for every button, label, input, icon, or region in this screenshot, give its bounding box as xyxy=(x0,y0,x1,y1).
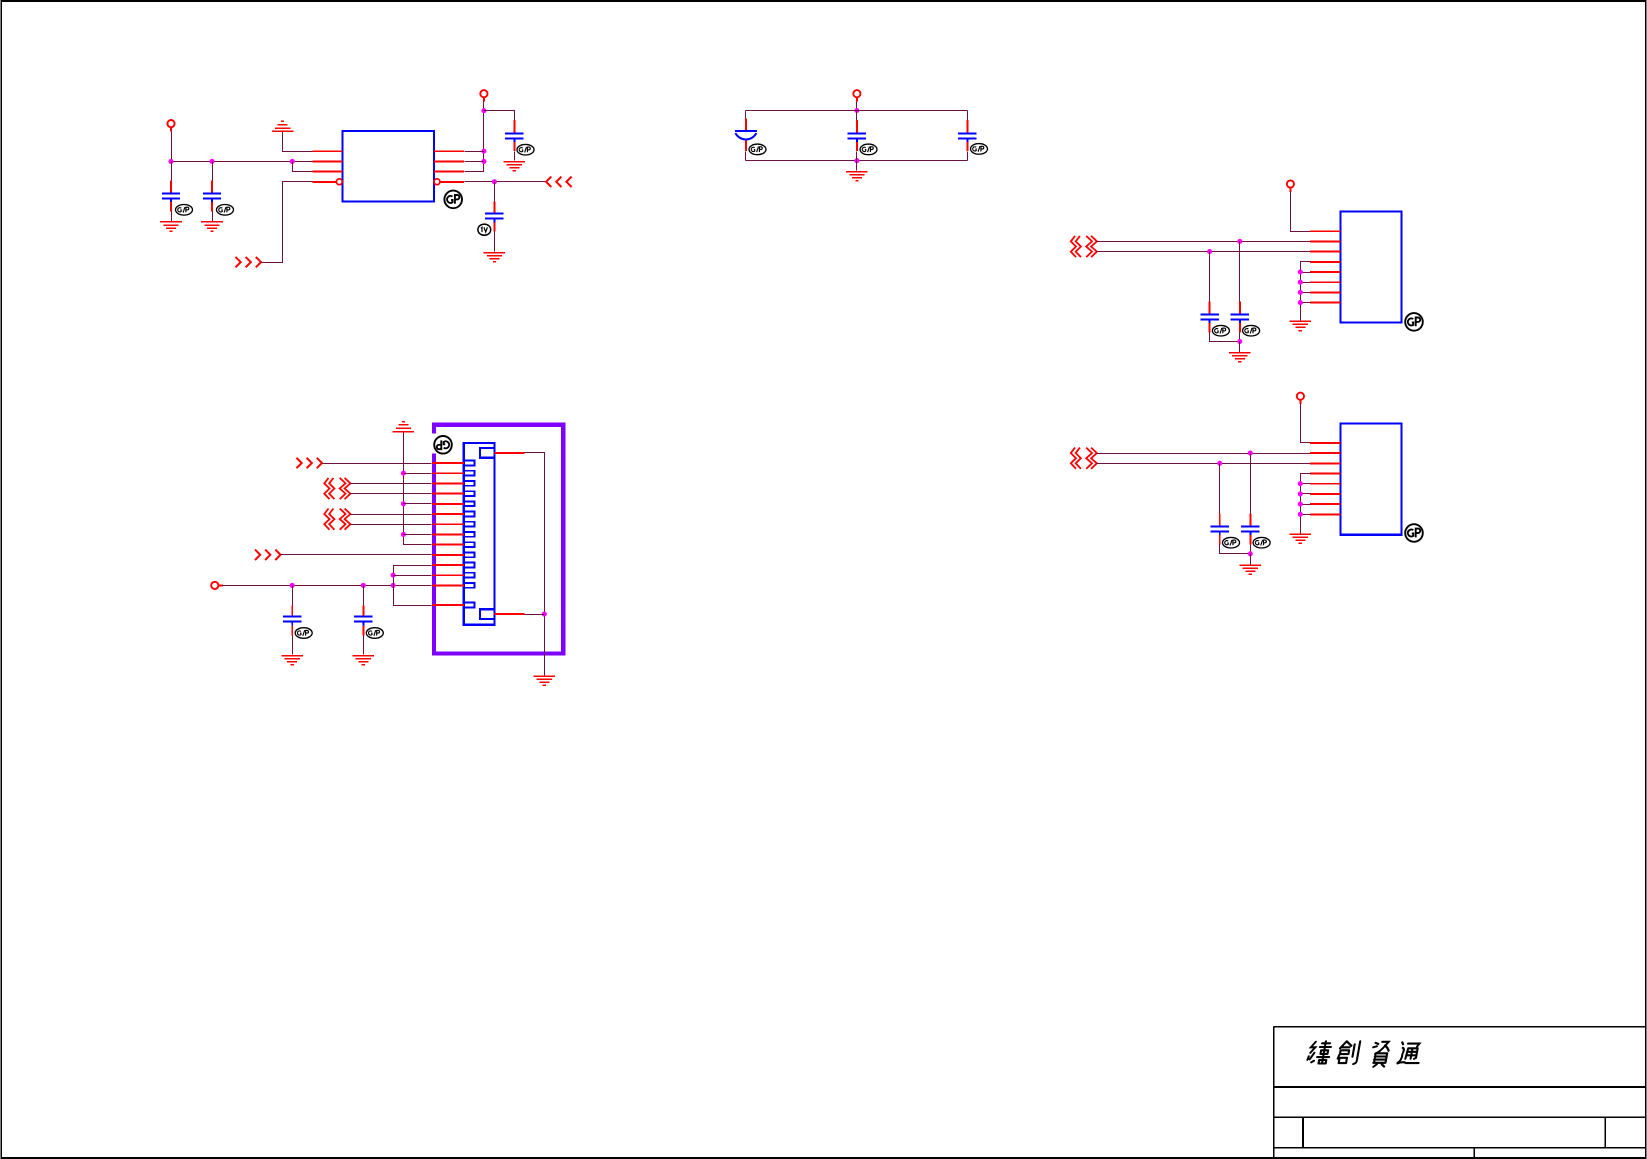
connector J1 body xyxy=(464,443,495,625)
wire cap-right bottom U2 xyxy=(1239,333,1241,342)
wire stub row6 U2 xyxy=(1301,282,1311,284)
capacitor C1 xyxy=(162,193,180,202)
GP stamp J1 xyxy=(434,436,452,454)
junction GE row2 xyxy=(401,471,406,476)
wire C7 bottom xyxy=(967,152,969,161)
wire V2 row12 xyxy=(394,575,432,577)
pin C10 bottom xyxy=(291,626,293,636)
wire C1 top xyxy=(171,162,173,181)
junction stub row6 U3 xyxy=(1298,491,1303,496)
wire ground vertical GE xyxy=(404,433,432,545)
off-page connector IN2 xyxy=(255,550,281,560)
connector shield box (purple) xyxy=(434,425,563,654)
pin U1.6 xyxy=(434,171,464,173)
pin U2.3 xyxy=(1310,251,1340,253)
connector J1 pin box 7 xyxy=(464,522,475,527)
connector J1 top tab xyxy=(480,448,495,458)
pin J1.1 xyxy=(432,462,464,464)
pin U3.8 xyxy=(1310,513,1340,515)
capacitor C3 xyxy=(505,133,523,142)
pin J1.14 xyxy=(432,604,464,606)
connector J1 pin box 12 xyxy=(464,573,475,578)
pin cap-right top U3 xyxy=(1249,513,1251,525)
IC U1 xyxy=(343,131,435,202)
G/P stamp U2-right xyxy=(1243,325,1260,336)
connector J1 pin box 9 xyxy=(464,542,475,547)
wire node A rail xyxy=(172,161,313,163)
ground GE inverted xyxy=(393,422,415,432)
junction U3 row3 xyxy=(1217,461,1222,466)
pin cap-left bottom U3 xyxy=(1219,535,1221,544)
pin U2.1 xyxy=(1310,230,1340,232)
wire GE row2 xyxy=(404,473,432,475)
junction stub row7 U3 xyxy=(1298,502,1303,507)
pin cap-left bottom U2 xyxy=(1209,323,1211,332)
G/P stamp C2 xyxy=(217,205,234,216)
connector J1 pin box 11 xyxy=(464,563,475,568)
capacitor C5 polarized xyxy=(735,131,757,140)
ground C4 xyxy=(484,253,506,262)
connector J1 pin box 2 xyxy=(464,471,475,476)
wire CH1 row4 xyxy=(351,493,432,495)
wire stub row7 U2 xyxy=(1301,292,1311,294)
company name text (Wistron) xyxy=(1306,1041,1422,1067)
pin C1 top xyxy=(170,181,172,193)
G/P stamp U3-left xyxy=(1223,537,1240,548)
junction P6-C10 xyxy=(290,583,295,588)
wire C4 top xyxy=(494,182,496,202)
wire node A3 to U1 pin 3 xyxy=(293,162,313,172)
power terminal P1 xyxy=(167,120,174,132)
wire C2 to ground xyxy=(212,212,214,222)
wire U2 row3 xyxy=(1097,251,1311,253)
pin C11 bottom xyxy=(362,626,364,636)
capacitor U2-left xyxy=(1200,314,1218,323)
off-page bus connector CH2 xyxy=(324,509,350,530)
pin J1 bottom tab xyxy=(494,613,524,615)
pin U1.4 xyxy=(313,181,337,183)
pin U3.7 xyxy=(1310,503,1340,505)
pin U2.5 xyxy=(1310,271,1340,273)
wire ground stem U2 xyxy=(1239,342,1241,353)
junction V2 row12 xyxy=(391,573,396,578)
off-page bus connector U2 xyxy=(1071,236,1097,257)
pin C4 top xyxy=(493,202,495,213)
GP stamp U2 xyxy=(1405,313,1423,331)
wire CH2 row7 xyxy=(351,524,432,526)
bubble U1.5 xyxy=(434,179,440,185)
G/P stamp C3 xyxy=(517,144,534,155)
wire C2 top xyxy=(212,162,214,181)
wire pin8 to vertical xyxy=(465,151,484,153)
wire stub vertical U2 xyxy=(1301,262,1311,321)
pin U2.7 xyxy=(1310,291,1340,293)
connector J1 pin box 14 xyxy=(464,603,475,608)
junction stub row8 U2 xyxy=(1298,300,1303,305)
wire U3 row2 xyxy=(1097,453,1311,455)
wire CH2 row6 xyxy=(351,514,432,516)
capacitor C11 xyxy=(354,617,372,626)
off-page bus connector CH1 xyxy=(324,478,350,499)
pin J1.10 xyxy=(432,554,464,556)
ground stub U3 xyxy=(1290,534,1312,543)
junction stub row5 U3 xyxy=(1298,481,1303,486)
junction P2-pin7 xyxy=(481,159,486,164)
junction B bottom xyxy=(854,158,859,163)
ground C1 xyxy=(160,222,182,231)
wire B bottom rail xyxy=(746,160,968,162)
wire C6 top xyxy=(856,111,858,121)
pin U1.3 xyxy=(313,171,343,173)
ground GA inverted xyxy=(272,121,294,131)
wire GA to U1 pin 1 xyxy=(283,132,313,152)
ground caps U2 xyxy=(1229,353,1251,362)
junction B top xyxy=(854,108,859,113)
power terminal P5 xyxy=(1297,393,1304,405)
wire top tab to ground xyxy=(525,453,545,676)
1V stamp C4 xyxy=(478,224,491,235)
junction GE row8 xyxy=(401,532,406,537)
pin cap-left top U2 xyxy=(1209,301,1211,313)
ground C11 xyxy=(353,656,375,665)
junction stub row8 U3 xyxy=(1298,512,1303,517)
junction stub row7 U2 xyxy=(1298,290,1303,295)
pin C7 bottom xyxy=(966,142,968,151)
pin U3.4 xyxy=(1310,473,1340,475)
G/P stamp U2-left xyxy=(1212,325,1229,336)
pin J1.6 xyxy=(432,513,464,515)
wire cap-left top U2 xyxy=(1209,252,1211,302)
wire to C3 xyxy=(484,111,515,121)
wire cap-right bottom U3 xyxy=(1250,545,1252,554)
wire stub vertical U3 xyxy=(1301,474,1311,534)
pin C6 bottom xyxy=(856,142,858,151)
wire cap-left bottom U2 xyxy=(1210,333,1240,342)
wire cap-right top U2 xyxy=(1239,242,1241,302)
pin cap-right top U2 xyxy=(1239,301,1241,313)
pin C3 bottom xyxy=(513,142,515,151)
junction node A2 xyxy=(209,159,214,164)
pin J1 top tab xyxy=(494,452,524,454)
IC U2 xyxy=(1340,211,1401,322)
pin U2.8 xyxy=(1310,302,1340,304)
pin J1.9 xyxy=(432,544,464,546)
ground caps U3 xyxy=(1240,565,1262,574)
wire pin7 to vertical xyxy=(465,161,484,163)
pin C10 top xyxy=(291,606,293,616)
pin C2 top xyxy=(211,181,213,193)
power terminal P3 xyxy=(853,90,860,102)
pin J1.3 xyxy=(432,482,464,484)
off-page bus connector U3 xyxy=(1071,448,1097,469)
pin U1.1 xyxy=(313,150,343,152)
power terminal P2 xyxy=(480,90,487,102)
capacitor C6 xyxy=(848,133,866,142)
wire P2 vertical xyxy=(465,102,484,172)
connector J1 pin box 5 xyxy=(464,501,475,506)
wire B top rail xyxy=(746,110,968,112)
junction U3 row2 xyxy=(1248,451,1253,456)
wire IN2 to pin10 xyxy=(281,554,432,556)
G/P stamp C11 xyxy=(366,628,383,639)
connector J1 pin box 10 xyxy=(464,552,475,557)
pin U2.2 xyxy=(1310,240,1340,242)
wire C6 bottom xyxy=(856,152,858,161)
wire stub row8 U2 xyxy=(1301,302,1311,304)
ground J1 shield xyxy=(534,676,556,685)
pin cap-right bottom U3 xyxy=(1249,535,1251,544)
junction P6-C11 xyxy=(361,583,366,588)
junction P6-V2 xyxy=(391,583,396,588)
power terminal P4 xyxy=(1287,180,1294,192)
pin C11 top xyxy=(362,606,364,616)
ground stub U2 xyxy=(1290,321,1312,330)
wire C4 to ground xyxy=(494,232,496,252)
pin U3.6 xyxy=(1310,493,1340,495)
wire U3 row3 xyxy=(1097,463,1311,465)
wire cap-left top U3 xyxy=(1219,464,1221,514)
wire CH1 row3 xyxy=(351,483,432,485)
connector J1 pin box 8 xyxy=(464,532,475,537)
pin U1.8 xyxy=(434,150,464,152)
title block outline xyxy=(1274,1027,1646,1158)
pin J1.2 xyxy=(432,472,464,474)
connector J1 pin box 1 xyxy=(464,461,475,466)
ground C2 xyxy=(201,222,223,231)
pin C1 bottom xyxy=(170,202,172,211)
capacitor U3-right xyxy=(1241,526,1259,535)
connector J1 pin box 6 xyxy=(464,512,475,517)
wire cap-left bottom U3 xyxy=(1220,545,1251,554)
pin J1.8 xyxy=(432,533,464,535)
wire stub row5 U2 xyxy=(1301,272,1311,274)
junction stub row6 U2 xyxy=(1298,280,1303,285)
bubble U1.4 xyxy=(336,179,342,185)
wire IN1 to pin1 xyxy=(323,463,432,465)
wire C11 to ground xyxy=(363,636,365,655)
G/P stamp C1 xyxy=(176,205,193,216)
wire U1 pin5 out xyxy=(465,181,546,183)
pin J1.12 xyxy=(432,574,464,576)
wire P6 rail xyxy=(223,585,432,587)
ground B xyxy=(846,172,868,181)
wire V2 top xyxy=(394,566,432,606)
wire B ground stem xyxy=(856,161,858,171)
ground C3 xyxy=(504,162,526,171)
GP stamp U1 xyxy=(444,191,462,209)
capacitor U3-left xyxy=(1211,526,1229,535)
junction caps U3 xyxy=(1248,551,1253,556)
wire P1 to node A xyxy=(171,132,173,162)
pin U1.5 xyxy=(440,181,464,183)
pin C4 bottom xyxy=(493,222,495,231)
pin J1.11 xyxy=(432,564,464,566)
capacitor C4 xyxy=(485,214,503,223)
pin cap-right bottom U2 xyxy=(1239,323,1241,332)
wire OUT1 to U1 pin 4 xyxy=(262,182,313,263)
off-page connector IN-A xyxy=(546,177,572,187)
G/P stamp C7 xyxy=(971,144,988,155)
junction node A3 xyxy=(290,159,295,164)
junction U2 row3 xyxy=(1207,249,1212,254)
pin U3.1 xyxy=(1310,442,1340,444)
pin U3.5 xyxy=(1310,483,1340,485)
wire ground stem U3 xyxy=(1250,554,1252,565)
pin J1.7 xyxy=(432,523,464,525)
wire C11 top xyxy=(363,586,365,606)
GP stamp U3 xyxy=(1405,524,1423,542)
ground C10 xyxy=(281,656,303,665)
wire C10 to ground xyxy=(292,636,294,655)
junction P2-C3 xyxy=(481,108,486,113)
wire stub row7 U3 xyxy=(1301,504,1311,506)
junction C4 xyxy=(492,179,497,184)
pin C5 top xyxy=(745,118,747,129)
connector J1 pin box 3 xyxy=(464,481,475,486)
wire P5 to pin 1 xyxy=(1301,404,1311,443)
wire C5 bottom xyxy=(745,152,747,161)
capacitor C7 xyxy=(958,133,976,142)
pin C3 top xyxy=(513,120,515,132)
wire stub row6 U3 xyxy=(1301,493,1311,495)
capacitor C10 xyxy=(283,617,301,626)
wire P3 down xyxy=(856,102,858,111)
pin U1.7 xyxy=(434,160,464,162)
pin C6 top xyxy=(856,120,858,132)
wire stub row5 U3 xyxy=(1301,483,1311,485)
wire GE row5 xyxy=(404,503,432,505)
pin C2 bottom xyxy=(211,202,213,211)
connector J1 bottom tab xyxy=(480,609,495,619)
G/P stamp C6 xyxy=(860,144,877,155)
wire C10 top xyxy=(292,586,294,606)
wire stub row8 U3 xyxy=(1301,514,1311,516)
pin U3.2 xyxy=(1310,452,1340,454)
connector J1 pin box 4 xyxy=(464,491,475,496)
junction GE row5 xyxy=(401,501,406,506)
wire U2 row2 xyxy=(1097,241,1311,243)
wire C1 to ground xyxy=(171,212,173,222)
pin U2.4 xyxy=(1310,261,1340,263)
power terminal P6 xyxy=(211,582,223,589)
G/P stamp U3-right xyxy=(1253,537,1270,548)
off-page connector OUT1 xyxy=(236,257,262,267)
pin cap-left top U3 xyxy=(1219,513,1221,525)
wire C7 top xyxy=(967,111,969,121)
G/P stamp C10 xyxy=(295,628,312,639)
wire bottom tab xyxy=(525,614,545,616)
wire cap-right top U3 xyxy=(1250,454,1252,514)
junction stub row5 U2 xyxy=(1298,269,1303,274)
capacitor C2 xyxy=(203,193,221,202)
pin U3.3 xyxy=(1310,462,1340,464)
junction caps U2 xyxy=(1237,339,1242,344)
pin J1.4 xyxy=(432,493,464,495)
junction node A1 xyxy=(168,159,173,164)
junction tab wire xyxy=(542,612,547,617)
wire P4 to pin 1 xyxy=(1291,192,1311,232)
pin J1.5 xyxy=(432,503,464,505)
wire C3 to ground xyxy=(514,152,516,161)
pin U2.6 xyxy=(1310,281,1340,283)
pin C7 top xyxy=(966,120,968,132)
junction U2 row2 xyxy=(1237,239,1242,244)
pin U1.2 xyxy=(313,160,343,162)
off-page connector IN1 xyxy=(297,458,323,468)
wire C5 top xyxy=(745,111,747,119)
connector J1 pin box 13 xyxy=(464,583,475,588)
capacitor U2-right xyxy=(1231,314,1249,323)
G/P stamp C5 xyxy=(749,144,766,155)
junction P2-pin8 xyxy=(481,149,486,154)
pin J1.13 xyxy=(432,584,464,586)
wire GE row8 xyxy=(404,534,432,536)
pin C5 bottom xyxy=(745,141,747,152)
IC U3 xyxy=(1340,424,1401,535)
